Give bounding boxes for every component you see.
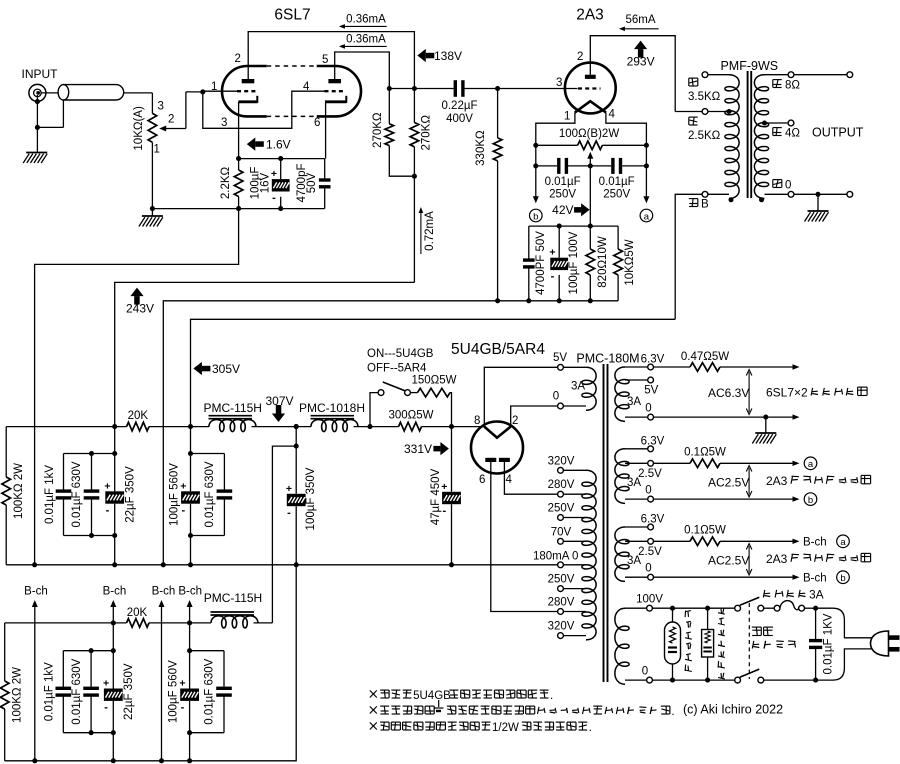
svg-text:2.5V: 2.5V [638, 468, 662, 480]
label OFF 5AR4 [367, 363, 427, 375]
svg-text:100µF 100V: 100µF 100V [568, 231, 580, 294]
node b circled [530, 209, 543, 222]
voltage arrow 138V [417, 49, 462, 63]
label pin 2 [512, 415, 518, 427]
svg-text:3: 3 [221, 117, 227, 129]
capacitor 47uF 450V [441, 427, 461, 565]
wire cathode network top rail [529, 225, 618, 227]
wire choke to 300ohm [354, 426, 399, 428]
svg-text:3A: 3A [571, 381, 585, 393]
svg-text:0.01µF: 0.01µF [545, 176, 581, 188]
junction row 307V node [294, 424, 299, 429]
junction plate node right [412, 86, 417, 91]
junction neon top [670, 606, 675, 611]
wire wiper to 6SL7 grids [186, 92, 203, 129]
label fuse 3A [763, 588, 823, 602]
label 5V left [553, 352, 567, 364]
label 6.3V G1 [641, 354, 665, 366]
junction rail 100uF560 [188, 562, 193, 567]
capacitor 100uF 16V electrolytic [271, 159, 290, 209]
capacitor 100uF 560V B-ch [179, 623, 199, 761]
voltage arrow 1.6V [247, 138, 291, 152]
svg-text:-: - [181, 702, 185, 714]
wire filament left [536, 112, 575, 145]
wire cathode2 down [325, 102, 327, 159]
PT terminal 0 G3 [625, 574, 653, 580]
svg-text:0: 0 [642, 666, 648, 678]
capacitor 0.01uF 250V right [613, 158, 621, 174]
wire cathode network bottom rail to return [163, 301, 618, 565]
junction shield node [35, 125, 40, 130]
junction 100uF bottom [278, 206, 283, 211]
label 0.01uF 1kV [44, 465, 56, 524]
svg-text:+: + [103, 678, 109, 690]
label gray 4ohm [773, 128, 801, 140]
wire 0 line [652, 679, 734, 681]
capacitor 0.01uF 1kV [56, 476, 72, 536]
capacitor 0.01uF 630V B B-ch [216, 651, 232, 733]
svg-text:0.01µF 1KV: 0.01µF 1KV [823, 613, 835, 674]
junction 22uF top B-ch [111, 648, 116, 653]
OPT terminal brown B [702, 191, 729, 197]
label pot pin 1 [154, 144, 160, 156]
wire 2A3 plate to orange tap [675, 111, 702, 113]
neon lamp [665, 608, 681, 680]
capacitor 100uF 350V [286, 427, 306, 565]
wire cathode1 down [238, 102, 240, 159]
label 330K [475, 130, 487, 166]
node a circled G2 [804, 457, 817, 470]
svg-text:5U4GB/5AR4: 5U4GB/5AR4 [451, 341, 545, 358]
label 0.01uF 630V A [71, 461, 83, 527]
label 2A3 tube title [576, 7, 604, 24]
svg-text:180mA 0: 180mA 0 [533, 550, 578, 562]
label pin 4 [303, 81, 310, 93]
capacitor 0.01uF 1kV B-ch [56, 673, 72, 733]
junction bypass right [644, 163, 649, 168]
capacitor bank A box [64, 454, 115, 536]
label 0.01uF 630V B B-ch [203, 658, 215, 724]
svg-text:B-ch: B-ch [103, 586, 127, 598]
svg-text:250V: 250V [548, 503, 575, 515]
svg-text:0: 0 [645, 563, 651, 575]
svg-text:1/2W: 1/2W [492, 722, 519, 734]
junction box mid top [89, 451, 94, 456]
label 2.5V G2 [638, 468, 662, 480]
resistor 300ohm 5W [399, 422, 422, 431]
label 3A 5V winding [571, 381, 585, 393]
PT core [604, 364, 608, 682]
label 2A3 filament G3 [766, 552, 871, 566]
svg-text:320V: 320V [548, 621, 575, 633]
OPT phase dot secondary [759, 197, 764, 202]
svg-text:1: 1 [154, 144, 160, 156]
svg-text:250V: 250V [548, 574, 575, 586]
OPT terminal red 3.5K [702, 72, 729, 78]
svg-text:3A: 3A [627, 396, 641, 408]
label 2A3 pin 4 [609, 109, 616, 121]
junction bottom 4700PF [526, 298, 531, 303]
junction rail cathode return [161, 562, 166, 567]
wire 2.5V G3 feed [654, 540, 691, 542]
wire branch to B-ch choke [272, 446, 296, 623]
ac range arrow AC2.5V G2 [746, 466, 752, 498]
svg-text:0.36mA: 0.36mA [346, 14, 386, 26]
label 320V lower [548, 621, 575, 633]
label OUTPUT [812, 126, 864, 140]
svg-text:B-ch: B-ch [178, 586, 202, 598]
svg-text:AC6.3V: AC6.3V [708, 386, 749, 400]
PT terminal 6.3V G3 [625, 524, 653, 530]
svg-text:a: a [808, 459, 814, 470]
junction bypass center [588, 163, 593, 168]
label 100uF 100V [568, 231, 580, 294]
junction B-ch rail 2 [111, 758, 116, 763]
svg-text:305V: 305V [212, 362, 240, 376]
svg-text:270KΩ: 270KΩ [372, 112, 384, 148]
svg-text:B: B [701, 199, 709, 211]
label 270K right [421, 115, 433, 151]
label pin 2 [235, 53, 241, 65]
junction 100uF top B-ch [187, 648, 192, 653]
svg-text:10KΩ(A): 10KΩ(A) [133, 106, 145, 151]
svg-text:+: + [271, 168, 277, 180]
wire shield node to ground [36, 127, 38, 152]
capacitor 100uF 560V [180, 427, 200, 565]
label 2A3 pin 2 [577, 51, 583, 63]
ground speaker [805, 211, 829, 222]
junction B-ch 305V node [187, 620, 192, 625]
label 0 G1 [645, 403, 651, 415]
label 100uF 16V [249, 167, 271, 200]
spark killer [702, 608, 714, 680]
svg-text:+: + [441, 481, 447, 493]
junction grid node [200, 89, 205, 94]
junction plate loads bottom [412, 174, 417, 179]
svg-text:5V: 5V [553, 352, 567, 364]
svg-text:100µF 350V: 100µF 350V [305, 467, 317, 530]
junction top rail 820ohm [588, 224, 593, 229]
2A3 plate [585, 75, 596, 79]
wire 2.5V G2 feed [654, 462, 691, 464]
svg-text:B-ch: B-ch [803, 537, 827, 549]
PT terminal 250V upper [558, 515, 586, 521]
svg-text:0.01µF 630V: 0.01µF 630V [203, 658, 215, 724]
wire pot bottom [151, 142, 153, 208]
junction B-ch rail 1 [32, 758, 37, 763]
label B-ch 4 [178, 586, 202, 598]
label 250V upper [548, 503, 575, 515]
voltage arrow 307V [265, 394, 293, 422]
PT terminal 0 G1 [625, 414, 653, 420]
B-ch connector 243V arrow [110, 600, 116, 623]
label black 0 [773, 180, 792, 192]
label 0.22uF 400V [441, 100, 477, 125]
wire plate node to coupling cap [389, 88, 454, 90]
label 4700PF 50V [535, 231, 547, 295]
ground input jack [23, 153, 47, 164]
wire 6.3V G1 feed [654, 366, 691, 368]
junction 100uF350V top [294, 424, 299, 429]
junction B-ch box mid top [89, 648, 94, 653]
svg-text:b: b [808, 495, 813, 506]
wire 20K to choke [149, 426, 209, 428]
label 100ohm B 2W [559, 128, 620, 140]
label blue 8ohm [773, 80, 801, 92]
svg-text:2A3: 2A3 [766, 474, 788, 488]
svg-text:0.36mA: 0.36mA [346, 34, 386, 46]
resistor 20K B-ch [127, 619, 150, 628]
junction grid leak node [495, 86, 500, 91]
svg-text:+: + [104, 480, 110, 492]
PT terminal 2.5V G3 [625, 538, 653, 544]
resistor 100K 2W B-ch [0, 623, 9, 761]
capacitor 0.01uF 250V left [559, 158, 567, 174]
svg-text:-: - [104, 702, 108, 714]
wire B-ch feed row [5, 622, 127, 624]
label spark killer [718, 608, 725, 679]
label 100K 2W B-ch [12, 667, 24, 723]
wire B-ch ground rail [5, 565, 297, 761]
junction row 243V node [112, 424, 117, 429]
svg-text:0.47Ω5W: 0.47Ω5W [681, 351, 729, 363]
label PMC-180M [576, 352, 639, 366]
svg-text:6: 6 [479, 474, 485, 486]
PT 6.3V winding G2 [615, 449, 629, 504]
PT terminal 0 G2 [625, 496, 653, 502]
OPT terminal blue 8ohm [765, 72, 794, 78]
label 2A3 filament G2 [766, 474, 871, 488]
label orange 2.5K [688, 117, 721, 142]
resistor 330K grid leak [493, 89, 502, 301]
label 5U4GB/5AR4 tube title [451, 341, 545, 358]
label pin 5 [322, 54, 328, 66]
potentiometer VR1 10K-A [148, 113, 157, 142]
B-ch connector cathode return arrow [159, 600, 165, 761]
PT terminal 0 of 5V [558, 403, 586, 409]
OPT terminal black 0 [765, 191, 794, 197]
node a circled [640, 209, 653, 222]
svg-text:8Ω: 8Ω [785, 80, 800, 92]
junction spark killer bottom [705, 678, 710, 683]
svg-text:+: + [549, 247, 555, 259]
svg-text:100V: 100V [636, 594, 663, 606]
svg-text:10KΩ5W: 10KΩ5W [624, 239, 636, 285]
svg-text:3A: 3A [809, 588, 824, 602]
label 0.1ohm 5W G2 [684, 446, 726, 458]
svg-text:250V: 250V [603, 188, 630, 200]
wire pin2 plate to node [248, 32, 414, 89]
svg-text:4700PF 50V: 4700PF 50V [535, 231, 547, 295]
svg-text:AC2.5V: AC2.5V [708, 554, 749, 568]
capacitor 22uF 350V [104, 454, 124, 536]
label pin 3 [221, 117, 227, 129]
junction 22uF bottom [112, 533, 117, 538]
wire cathode return to PSU [35, 209, 239, 565]
junction B-ch box mid bottom [89, 730, 94, 735]
note voltages with 5U4GB [370, 690, 553, 702]
voltage arrow 243V [126, 288, 154, 316]
label pin 8 [474, 415, 480, 427]
input RCA jack J1 [29, 84, 46, 101]
resistor 20K dropper [127, 422, 150, 431]
svg-text:0.22µF: 0.22µF [441, 100, 477, 112]
PT terminal 2.5V G2 [625, 460, 653, 466]
wire 305V line from brown B [191, 319, 676, 426]
svg-text:ON---5U4GB: ON---5U4GB [367, 348, 434, 360]
wire speaker common to ground [817, 194, 819, 211]
label 0.01uF 630V A B-ch [71, 658, 83, 724]
svg-text:150Ω5W: 150Ω5W [411, 375, 456, 387]
2A3 grid [578, 87, 601, 89]
svg-text:-: - [181, 504, 185, 516]
wire heater ground stub [765, 417, 767, 433]
wire jack shield down [36, 95, 38, 127]
svg-text:100KΩ 2W: 100KΩ 2W [13, 463, 25, 519]
wire 0 G3 feed [654, 575, 800, 580]
junction 100uF bottom B-ch [187, 730, 192, 735]
svg-text:6SL7: 6SL7 [274, 7, 310, 24]
label PMF-9WS [720, 59, 778, 73]
label 6SL7 tube title [274, 7, 310, 24]
junction B-ch rail 4 [187, 758, 192, 763]
junction bottom 820ohm [588, 298, 593, 303]
wire choke to choke [252, 426, 312, 428]
svg-text:138V: 138V [434, 49, 462, 63]
label 280V upper [548, 479, 575, 491]
label 0.01uF 1KV [823, 613, 835, 674]
PT terminal 250V lower [558, 586, 586, 592]
junction branch to B-ch [294, 444, 299, 449]
6SL7 plate 2 [328, 79, 341, 83]
svg-text:-: - [551, 271, 555, 283]
wire main ground rail [6, 564, 557, 566]
PT terminal 5V [558, 364, 586, 370]
junction bypass left [533, 163, 538, 168]
label 10K 5W [624, 239, 636, 285]
resistor 0.1ohm 5W G3 [690, 537, 720, 546]
svg-text:50V: 50V [306, 172, 318, 193]
svg-text:4: 4 [609, 109, 616, 121]
label neon lamp [685, 611, 692, 672]
wire cable to volume pot [124, 93, 153, 114]
label 0 primary [642, 666, 648, 678]
label pot pin 3 [158, 101, 164, 113]
svg-text:0.01µF 1kV: 0.01µF 1kV [44, 662, 56, 721]
wire grid2 lead Z-route [203, 91, 325, 128]
junction 22uF top [112, 451, 117, 456]
label 2A3 pin 1 [564, 111, 570, 123]
label brown B [689, 199, 709, 211]
label 6SL7x2 heaters [766, 386, 867, 400]
label copyright [683, 703, 783, 717]
svg-text:331V: 331V [404, 442, 432, 456]
svg-text:2: 2 [235, 53, 241, 65]
wire to B-ch 2A3 filament a [720, 539, 800, 544]
label 2A3 pin 3 [556, 77, 562, 89]
wire 300ohm to rectifier [422, 426, 485, 428]
current annotation 0.72mA [419, 207, 436, 254]
current annotation 0.36mA lower [339, 34, 387, 49]
svg-text:B-ch: B-ch [803, 573, 827, 585]
svg-text:a: a [644, 211, 650, 222]
capacitor 0.01uF 630V B [217, 454, 233, 536]
svg-text:B-ch: B-ch [24, 586, 48, 598]
svg-text:2.5V: 2.5V [638, 546, 662, 558]
junction cathode rail at 2.2K [236, 156, 241, 161]
6SL7 plate 1 [242, 79, 255, 83]
label 0 G2 [645, 485, 651, 497]
svg-text:.: . [550, 690, 553, 702]
svg-text:280V: 280V [548, 479, 575, 491]
6SL7 cathode 1 [238, 96, 257, 103]
OPT primary winding [725, 75, 739, 199]
label B-ch 3 [152, 586, 176, 598]
label 22uF 350V B-ch [123, 663, 135, 720]
PT terminal 6.3V G2 [625, 446, 653, 452]
wire black to output jack [794, 191, 853, 197]
svg-text:3A: 3A [627, 477, 641, 489]
junction box mid bottom [89, 533, 94, 538]
label 4700pF 50V [296, 163, 318, 202]
junction cathode rail at 100uF [278, 156, 283, 161]
svg-text:0.1Ω5W: 0.1Ω5W [684, 446, 726, 458]
label B-ch 2 [103, 586, 127, 598]
label B-ch a G3 [803, 535, 849, 549]
junction top rail 100uF [557, 224, 562, 229]
wire cathode bottom rail [152, 208, 324, 210]
svg-text:2: 2 [577, 51, 583, 63]
svg-text:.: . [671, 706, 674, 718]
label 0.1ohm 5W G3 [684, 524, 726, 536]
svg-text:22µF 350V: 22µF 350V [123, 663, 135, 720]
shielded cable [58, 85, 124, 100]
svg-text:0.1Ω5W: 0.1Ω5W [684, 524, 726, 536]
tube 2A3 envelope [565, 63, 616, 114]
voltage arrow 305V [193, 362, 240, 376]
svg-text:320V: 320V [548, 455, 575, 467]
svg-text:20K: 20K [127, 607, 148, 619]
svg-text:+: + [286, 483, 292, 495]
label AC6.3V [708, 386, 749, 400]
junction row 305V node [188, 424, 193, 429]
svg-text:6.3V: 6.3V [641, 354, 665, 366]
label pin 1 [211, 81, 217, 93]
label 47uF 450V [430, 468, 442, 525]
ac range arrow AC2.5V G3 [746, 544, 752, 576]
svg-text:6SL7×2: 6SL7×2 [766, 386, 808, 400]
fuse 3A [764, 601, 816, 612]
svg-text:(c) Aki Ichiro 2022: (c) Aki Ichiro 2022 [683, 703, 783, 717]
node b circled G2 [804, 493, 817, 506]
wire 243V line [115, 282, 415, 453]
label red 3.5K [688, 78, 721, 103]
junction B-ch 243V node [111, 620, 116, 625]
junction pot ground [150, 206, 155, 211]
wire choke up to 307V branch [254, 622, 273, 624]
PT terminal 280V upper [558, 491, 586, 497]
label power switch [752, 627, 796, 648]
PT terminal 6.3V G1 [625, 364, 653, 370]
svg-text:-: - [272, 192, 276, 204]
resistor 270K plate load 1 [385, 89, 414, 177]
svg-text:OUTPUT: OUTPUT [812, 126, 864, 140]
label 0.01uF 250V left [545, 176, 581, 201]
hum pot 100ohm B 2W [536, 141, 647, 150]
label 5V G1 [644, 385, 658, 397]
svg-text:3: 3 [158, 101, 164, 113]
capacitor 4700pF 50V [319, 159, 331, 209]
